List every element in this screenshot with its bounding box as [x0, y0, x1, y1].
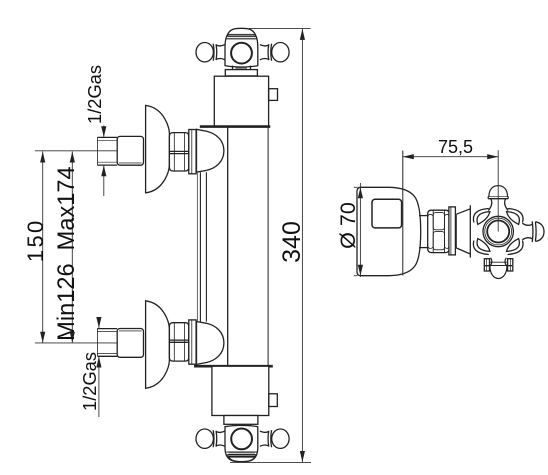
left knob: ball — [196, 43, 213, 62]
right arm ring — [531, 221, 534, 242]
right arm ball — [535, 222, 544, 242]
wire: flange edge stubs — [354, 186, 358, 188]
housing right tab — [269, 89, 278, 101]
dimension 150 line — [42, 152, 44, 343]
arrow: 1/2Gas bottom down — [96, 317, 101, 328]
arrow: 75,5 left — [403, 154, 414, 159]
svg-text:1/2Gas: 1/2Gas — [79, 352, 100, 411]
dome shaded band — [228, 34, 255, 36]
bottom knob dome — [490, 266, 507, 279]
dome lower line — [227, 38, 257, 40]
svg-text:1/2Gas: 1/2Gas — [84, 65, 105, 124]
arrow: 340 top — [300, 29, 305, 40]
dome base band — [229, 451, 255, 453]
right knob: neck — [260, 45, 269, 46]
arrow: minmax top — [70, 152, 75, 163]
arrow: 1/2Gas top up — [101, 165, 106, 176]
hex nut — [428, 210, 450, 252]
stem cup — [456, 209, 470, 214]
center circle — [231, 43, 252, 64]
handle hub rim arcs — [508, 209, 523, 223]
arrow: minmax bottom — [70, 332, 75, 343]
right knob: ball — [272, 429, 289, 448]
arrow: Ø70 top — [358, 187, 363, 198]
bottom cross handle — [196, 425, 289, 461]
svg-text:Min126 Max174: Min126 Max174 — [54, 166, 80, 340]
hub with integral dome bottom — [225, 425, 258, 461]
vertical strip between wall unions — [196, 173, 198, 321]
arrow: 150 top — [40, 152, 45, 163]
washer ring — [449, 207, 456, 255]
stem neck below hub — [232, 66, 234, 70]
dimension 1/2Gas bottom line — [98, 318, 100, 328]
bottom knob plate line — [485, 265, 512, 267]
threaded nipple pipe — [97, 355, 117, 357]
arrow: 150 bottom — [40, 332, 45, 343]
arrow: 1/2Gas bottom up — [96, 357, 101, 368]
central rings — [483, 216, 513, 246]
top wall union assembly (center y=150.8) — [97, 105, 223, 192]
crescent top-left — [477, 212, 490, 225]
dome cap — [229, 457, 255, 462]
bottom knob neck — [490, 258, 492, 266]
right knob: ball — [272, 43, 289, 62]
wire: center line through side handle — [497, 150, 499, 231]
washer ring — [189, 320, 196, 364]
thick plate line under housing — [200, 125, 270, 128]
dome elbow cover — [197, 322, 224, 365]
right arm neck — [522, 223, 532, 225]
dimension Min126 Max174 line — [71, 152, 73, 343]
svg-text:Ø 70: Ø 70 — [336, 202, 360, 249]
bottom thick plate line — [194, 365, 273, 368]
right knob: ring — [270, 44, 273, 61]
wall plane line — [402, 151, 404, 276]
handle back plate — [469, 205, 471, 257]
left knob: ball — [196, 429, 213, 448]
svg-text:75,5: 75,5 — [438, 137, 473, 157]
dome lower line — [226, 451, 257, 453]
square nut — [117, 329, 143, 358]
hub with integral dome top — [225, 28, 258, 67]
bottom arm clips — [484, 259, 489, 271]
dome shaded band — [228, 454, 256, 456]
dimension Ø70 line — [359, 183, 361, 277]
svg-text:150: 150 — [23, 218, 48, 262]
wire: center extension line of top union — [35, 150, 117, 152]
square nut — [117, 136, 143, 165]
crescent top-right — [507, 212, 520, 225]
neck between flange and nut — [419, 215, 428, 217]
wire: top extension line of 340 dim — [249, 27, 311, 29]
top knob: dome — [489, 186, 508, 197]
left knob: neck — [216, 431, 225, 432]
square boss — [372, 199, 402, 228]
arrow: Ø70 bottom — [358, 265, 363, 276]
bottom stem neck — [232, 424, 234, 426]
bell escutcheon — [146, 105, 170, 192]
right knob: neck — [260, 431, 269, 432]
crescent bottom-left — [477, 239, 490, 252]
left knob: neck — [216, 45, 225, 46]
bottom housing right tab — [269, 394, 278, 407]
wire: center extension line of bottom union — [35, 342, 117, 344]
left knob: ring — [212, 430, 215, 447]
threaded nipple pipe — [97, 136, 117, 138]
arrow: 1/2Gas top down — [101, 126, 106, 137]
top cartridge housing — [214, 76, 268, 126]
top knob: neck — [488, 199, 491, 211]
left knob: ring — [212, 44, 215, 61]
hex nut on bell — [169, 323, 188, 361]
arrow: 75,5 right — [487, 154, 498, 159]
bottom wall union assembly (mirror of top about y=246.85) — [97, 301, 223, 389]
bell escutcheon — [146, 301, 170, 389]
dome elbow cover — [197, 129, 224, 172]
wire: bottom extension line of 340 dim — [230, 461, 311, 463]
bottom stem plate — [224, 416, 258, 425]
right knob: ring — [270, 430, 273, 447]
flange disc — [357, 187, 421, 275]
dimension 1/2Gas top line — [103, 126, 105, 138]
washer ring — [189, 130, 196, 174]
hex nut on bell — [169, 133, 188, 171]
top knob: brim — [488, 198, 508, 200]
stem plate — [225, 70, 257, 76]
dimension 75,5 line — [403, 156, 498, 158]
bottom cartridge housing — [212, 366, 269, 415]
dimension 340 line — [301, 29, 303, 462]
top cross handle — [196, 28, 289, 76]
crescent bottom-right — [507, 239, 520, 252]
center circle — [231, 429, 252, 450]
main barrel body — [227, 127, 229, 366]
arrow: 340 bottom — [300, 451, 305, 462]
svg-text:340: 340 — [278, 221, 306, 263]
